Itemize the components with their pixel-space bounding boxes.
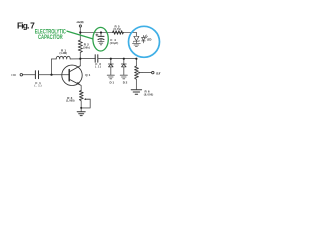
LED arrows — [145, 35, 148, 39]
svg-text:Fig. 7: Fig. 7 — [17, 20, 35, 30]
potentiometer R6 wiper arrow — [138, 72, 143, 74]
small component labels — [12, 20, 161, 103]
svg-text:C4: C4 — [110, 38, 116, 42]
wire collector node to C3 — [80, 58, 95, 60]
diode D2 lead — [123, 59, 125, 64]
svg-text:(10µF): (10µF) — [110, 42, 119, 45]
ground below R6 — [131, 90, 141, 94]
svg-text:OUT: OUT — [156, 71, 161, 75]
wire C1 to base node — [39, 74, 52, 76]
capacitor C3 — [95, 55, 98, 63]
ground below C4 — [98, 42, 104, 45]
transistor Q1 base bar — [68, 70, 70, 81]
svg-text:CAPACITOR: CAPACITOR — [38, 34, 63, 41]
capacitor C1 — [35, 71, 38, 79]
label ELECTROLYTIC CAPACITOR — [35, 28, 66, 41]
diode D1 lead — [110, 59, 112, 64]
capacitor C4 plus sign — [96, 34, 98, 36]
wire supply down — [79, 27, 81, 40]
svg-text:+9v (B): +9v (B) — [76, 20, 83, 24]
svg-text:(1,000): (1,000) — [66, 100, 75, 103]
node D1 junction — [110, 58, 112, 60]
svg-text:(56k): (56k) — [83, 47, 90, 50]
svg-text:(8,000): (8,000) — [144, 93, 154, 96]
wire base node to transistor base — [52, 74, 69, 76]
svg-text:(1.2M): (1.2M) — [60, 52, 68, 55]
wire top rail — [80, 32, 136, 34]
svg-text:D2: D2 — [123, 81, 128, 85]
zener diode D3 — [134, 36, 139, 43]
node C4 junction — [100, 31, 102, 33]
wire base node up to feedback — [51, 59, 53, 75]
transistor Q1 emitter diagonal with arrow — [69, 79, 81, 85]
node collector junction — [79, 58, 81, 60]
wire R6 to ground — [135, 79, 137, 89]
ground below zener — [133, 44, 141, 47]
wire emitter down — [80, 86, 82, 91]
wire wiper loop to bottom — [81, 99, 90, 108]
supply terminal +9v — [79, 25, 81, 27]
node rail corner junction — [135, 58, 137, 60]
resistor R2 collector zigzag — [78, 40, 82, 52]
transistor Q1 circle — [62, 65, 82, 85]
ground below R3 — [77, 112, 85, 116]
capacitor C4 electrolytic lead — [100, 33, 102, 37]
ground below D2 — [120, 75, 127, 79]
wire R2 to collector — [79, 52, 81, 58]
svg-text:Q1: Q1 — [85, 73, 90, 77]
wire collector vertical — [79, 59, 81, 66]
capacitor C4 plates — [98, 36, 104, 39]
resistor R5 rail zigzag — [113, 31, 124, 35]
svg-text:LED: LED — [147, 39, 152, 42]
resistor R1 feedback zigzag — [56, 56, 70, 59]
wire rail corner down to R6 — [135, 59, 137, 66]
blue circle highlight around zener and LED — [129, 26, 160, 57]
potentiometer R3 zigzag — [79, 90, 83, 101]
LED symbol — [142, 35, 146, 43]
green ellipse highlight around C4 — [93, 27, 108, 51]
ground below D1 — [107, 75, 114, 79]
wire feedback left segment — [52, 58, 57, 60]
potentiometer R3 wiper arrow — [84, 98, 90, 100]
wire wiper to OUT — [142, 72, 151, 74]
svg-text:D1: D1 — [110, 81, 115, 85]
terminal OUT — [152, 71, 154, 73]
svg-text:IN: IN — [12, 73, 16, 77]
transistor Q1 collector diagonal — [69, 66, 80, 72]
zener diode D3 lead in blue circle — [135, 33, 137, 37]
wire D2 to ground — [123, 67, 125, 75]
green pointer line — [67, 31, 94, 39]
wire R3 bottom — [80, 101, 82, 112]
node R3 bottom junction — [80, 107, 82, 109]
diode D2 — [121, 64, 126, 67]
node base junction — [50, 74, 52, 76]
terminal IN — [20, 74, 22, 76]
wire input to C1 — [23, 74, 36, 76]
svg-text:R2: R2 — [84, 43, 89, 47]
svg-text:(.1): (.1) — [35, 85, 42, 88]
svg-text:(6.7k): (6.7k) — [114, 28, 122, 31]
node D2 junction — [123, 58, 125, 60]
node supply junction — [79, 31, 81, 33]
potentiometer R6 zigzag — [135, 66, 139, 79]
wire C3 to right rail — [98, 58, 136, 60]
wire C4 to ground — [100, 39, 102, 42]
wire R1 to collector node — [70, 58, 80, 60]
wire D1 to ground — [110, 67, 112, 75]
diode D1 — [108, 64, 113, 67]
